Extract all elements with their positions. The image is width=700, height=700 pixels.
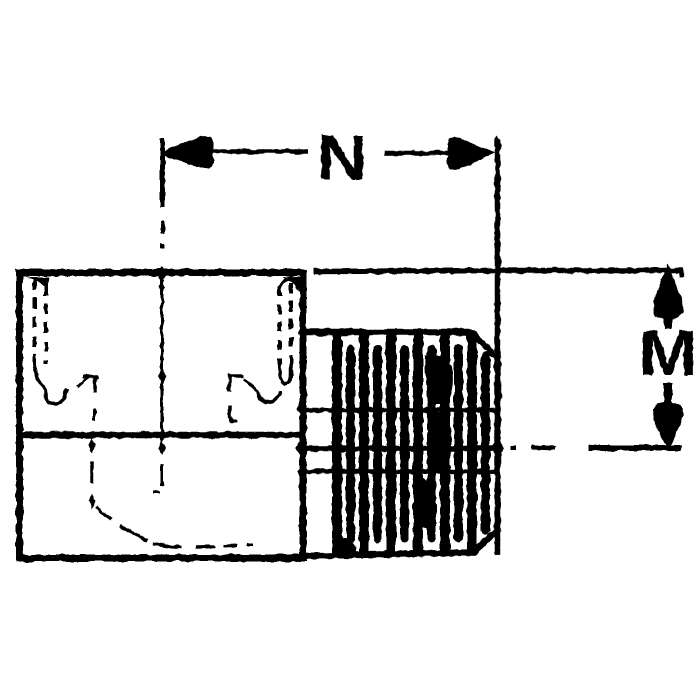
dimension N: dimension line left segment: [208, 149, 308, 154]
dimension M: bottom extension line: [588, 446, 681, 451]
centerline dash-dot to right: [510, 448, 556, 449]
dimension N: dimension line right segment: [384, 151, 455, 156]
dimension M: down arrow: [653, 383, 684, 451]
body mid line: [16, 432, 307, 439]
thread center line horizontal: [300, 446, 500, 452]
hidden line: right small L: [230, 406, 237, 422]
dimension N: label N: [316, 122, 367, 193]
hidden line: right u-curve: [257, 391, 280, 402]
dimension M: label M: [638, 318, 697, 389]
thread crest bars: [337, 334, 472, 553]
dimension M: up arrow: [653, 263, 684, 329]
dimension N: right extension line: [495, 139, 501, 555]
svg-text:N: N: [316, 122, 367, 193]
hidden line: left hook: [35, 358, 67, 404]
thread horizontal line upper: [300, 408, 496, 413]
hidden line: right u-cup: [280, 362, 292, 383]
dimension N: right arrow: [448, 137, 496, 170]
body outline (left socket): [20, 273, 304, 559]
hidden line: lower-left bore: [92, 462, 253, 548]
hidden line: left thread flag: [77, 377, 98, 422]
dimension M: top extension line: [314, 271, 682, 278]
hidden line: top-right hook: [280, 277, 301, 291]
hidden line: right socket inner wall pair: [280, 283, 292, 368]
thread smudges: [336, 355, 453, 559]
junction diamonds: [88, 135, 501, 509]
hidden line: right gamma and diagonal: [230, 376, 259, 392]
hidden line: top-left junction blob: [26, 277, 49, 291]
thread root bars (rounded): [351, 349, 486, 538]
thread horizontal line lower: [300, 469, 496, 474]
dimension N: left extension line: [160, 139, 165, 250]
thread section outline: [303, 332, 498, 556]
hidden line: left socket inner wall left pair: [35, 279, 47, 364]
dimension N: left arrow: [164, 136, 213, 169]
centerline vertical axis: [153, 271, 162, 492]
svg-text:M: M: [638, 318, 697, 389]
crossing bulges: [296, 401, 505, 533]
